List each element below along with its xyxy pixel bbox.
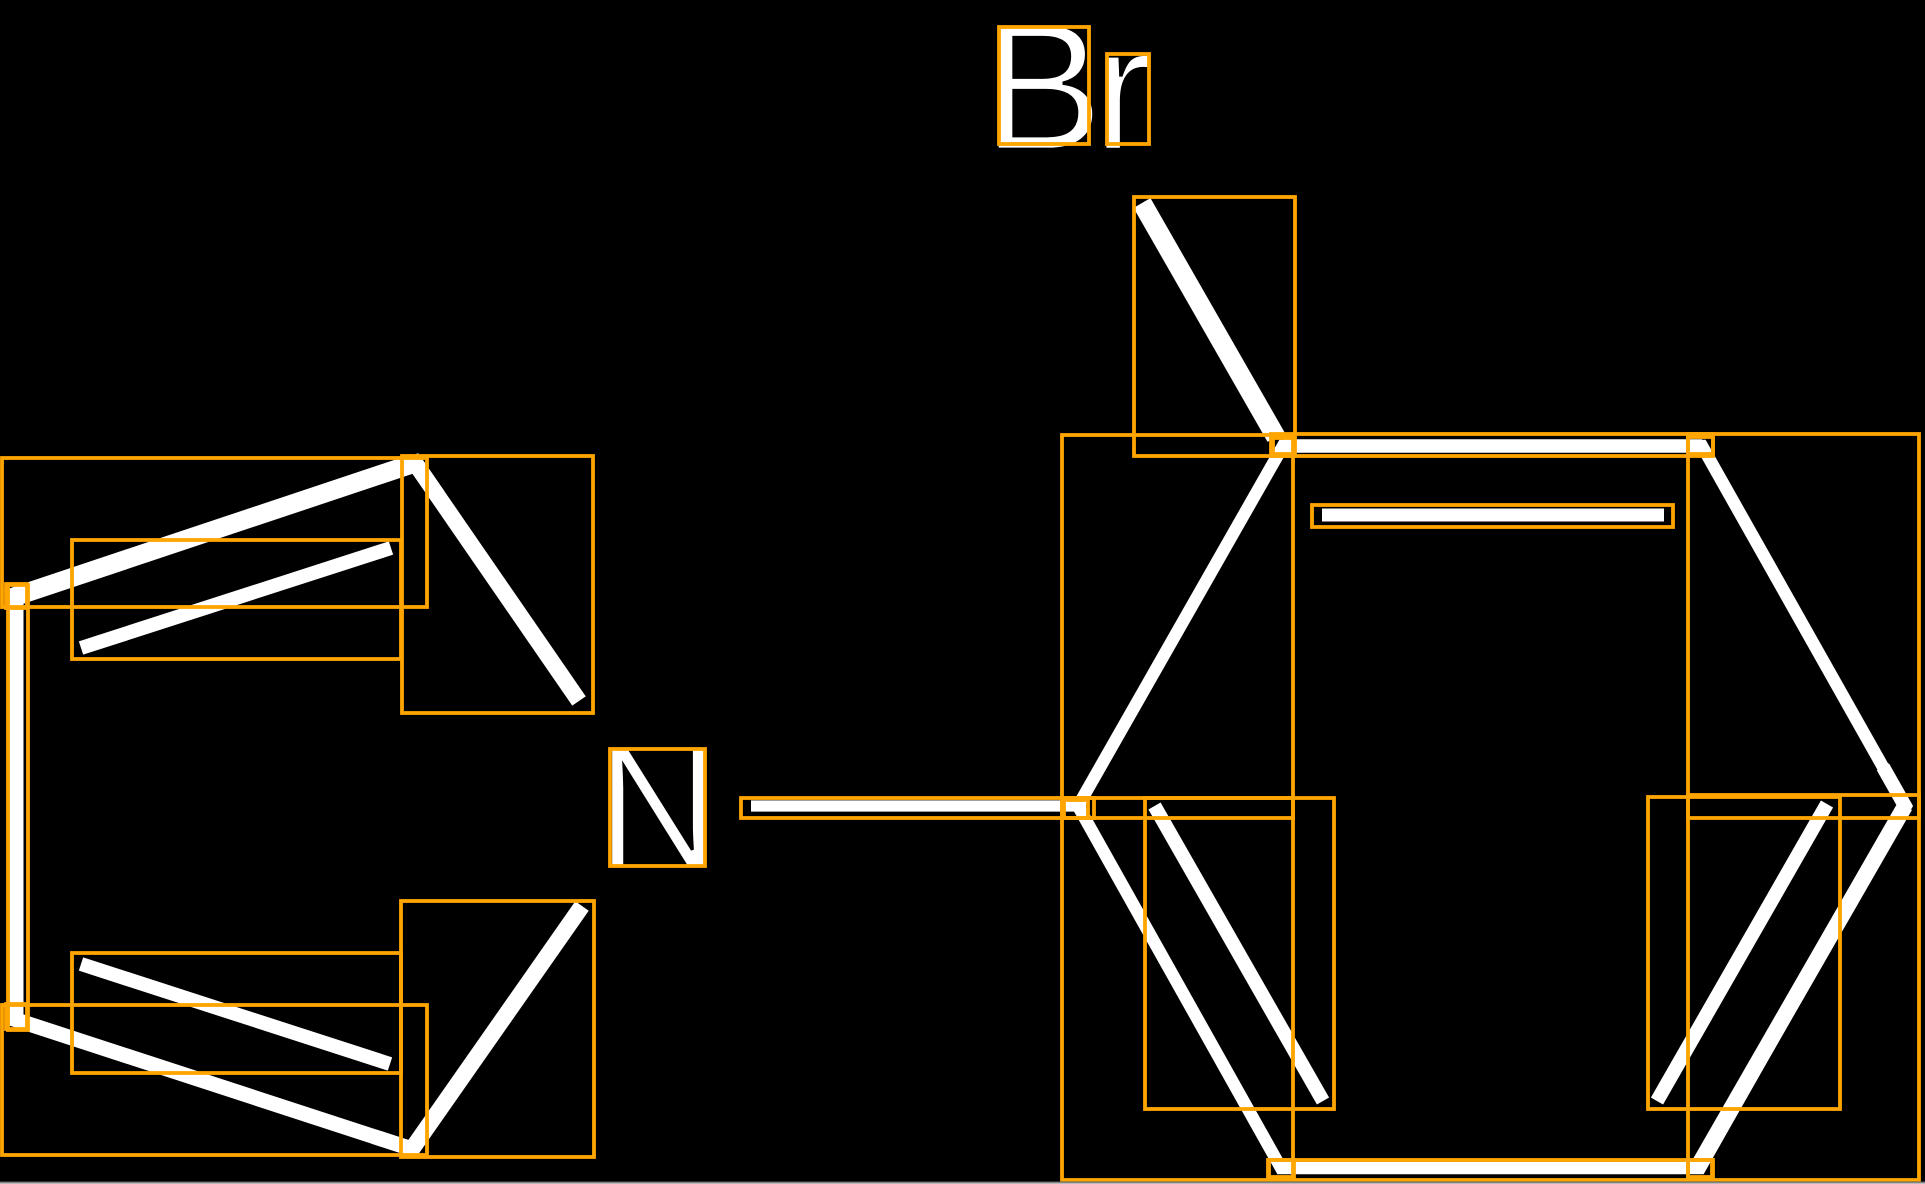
wire pyrrole C2=C3 bond outer line (7, 463, 415, 599)
wire pyrrole C4=C5 bond outer line (7, 1017, 412, 1149)
box bond benzene C1-C2 (1062, 435, 1293, 818)
wire bond Br to phenyl C2 (1142, 203, 1276, 437)
box bond benzene C3-C4 (1688, 434, 1919, 818)
box node pyrrole C3 (6, 584, 27, 608)
wire benzene C2-C3 bond overlay (top) (1283, 439, 1702, 453)
bottom border line (0, 1181, 1925, 1184)
box atom B glyph (999, 27, 1089, 144)
box bond benzene C6=C1 inner (1145, 798, 1334, 1109)
svg-text:N: N (597, 712, 720, 904)
box bond pyrrole C2-C3 outer (2, 458, 427, 607)
box node benzene C1 (1064, 800, 1088, 818)
box node benzene C5 (1688, 1160, 1712, 1177)
box atom N (610, 749, 705, 866)
wire joint at pyrrole C5 (374, 1116, 435, 1149)
wire bond N to phenyl C1 (751, 800, 1086, 811)
wire pyrrole C2=C3 double bond inner line (81, 548, 391, 648)
wire benzene C2=C3 inner double bond line (top) (1322, 509, 1664, 522)
wire pyrrole C5-N bond (412, 906, 582, 1149)
wire pyrrole C3-C4 bond (vertical) (10, 590, 24, 1026)
box node benzene C6 (1269, 1160, 1294, 1177)
wire pyrrole C2-N bond (415, 463, 579, 701)
wire joint at benzene C4 (1883, 767, 1905, 845)
wire benzene C4-C5 bond overlay (right-bottom) (1697, 806, 1905, 1168)
box bond benzene C4-C5 (1688, 795, 1919, 1180)
svg-text:r: r (1091, 0, 1155, 188)
box bond benzene C4=C5 inner (1648, 797, 1840, 1109)
box bond N-phenyl C1 (741, 798, 1094, 818)
box bond pyrrole C2=C3 inner (72, 540, 401, 659)
box bond benzene C5-C6 (1268, 1160, 1713, 1180)
wire benzene ring hexagon outline (1078, 446, 1905, 1168)
box node benzene C3 (1688, 437, 1713, 454)
box node pyrrole C4 (6, 1004, 27, 1029)
wire benzene C6=C1 inner double bond line (left) (1155, 806, 1324, 1101)
wire pyrrole C4=C5 double bond inner line (81, 964, 390, 1064)
box atom r glyph (1107, 54, 1149, 144)
box bond benzene C2-C3 (1271, 434, 1713, 456)
box bond pyrrole C4=C5 inner (72, 953, 401, 1073)
box bond benzene C1-C6 (1062, 798, 1293, 1180)
box bond pyrrole C3-C4 (8, 585, 28, 1030)
wire joint at pyrrole C2 (377, 463, 438, 496)
box bond pyrrole C5-N (401, 901, 594, 1157)
box bond benzene C2=C3 inner (1312, 505, 1673, 527)
box node benzene C2 (1273, 438, 1294, 454)
box bond pyrrole C2-N (402, 456, 593, 713)
wire benzene C4=C5 inner double bond line (right) (1657, 804, 1827, 1101)
box bond Br-C2 (1134, 197, 1295, 456)
box bond pyrrole C4-C5 outer (2, 1005, 427, 1155)
